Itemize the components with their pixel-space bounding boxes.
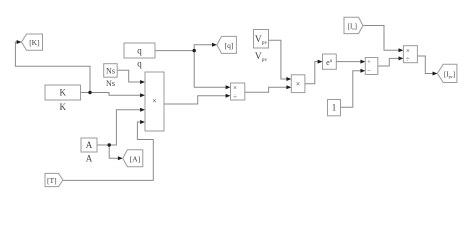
svg-text:q: q bbox=[137, 46, 142, 56]
svg-text:÷: ÷ bbox=[233, 93, 237, 101]
svg-text:q: q bbox=[137, 59, 142, 69]
svg-text:K: K bbox=[60, 88, 67, 98]
svg-text:[T]: [T] bbox=[47, 176, 57, 185]
svg-text:Ns: Ns bbox=[106, 79, 115, 88]
svg-text:+: + bbox=[367, 59, 371, 66]
svg-text:×: × bbox=[233, 84, 237, 92]
svg-text:×: × bbox=[296, 80, 301, 89]
svg-text:[A]: [A] bbox=[130, 154, 140, 163]
svg-text:−: − bbox=[367, 68, 371, 75]
svg-text:[Io]: [Io] bbox=[348, 22, 357, 31]
svg-text:A: A bbox=[86, 154, 93, 164]
svg-text:[K]: [K] bbox=[29, 38, 39, 47]
svg-text:1: 1 bbox=[332, 103, 337, 113]
svg-text:×: × bbox=[406, 47, 410, 55]
svg-text:÷: ÷ bbox=[406, 56, 410, 64]
svg-text:K: K bbox=[60, 102, 67, 112]
svg-text:×: × bbox=[152, 97, 157, 106]
svg-text:A: A bbox=[86, 140, 93, 150]
svg-text:[q]: [q] bbox=[225, 41, 234, 50]
svg-text:Ns: Ns bbox=[106, 67, 115, 76]
